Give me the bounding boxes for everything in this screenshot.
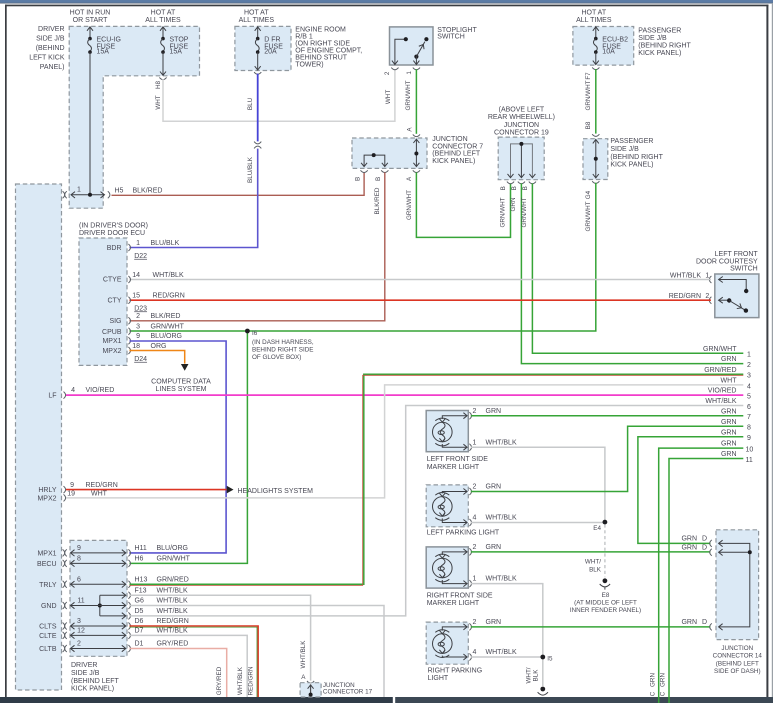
svg-text:GRN: GRN bbox=[486, 484, 502, 491]
svg-text:GRN/WHT: GRN/WHT bbox=[521, 197, 528, 227]
svg-text:H5: H5 bbox=[115, 187, 124, 194]
svg-text:CPUB: CPUB bbox=[102, 329, 122, 336]
svg-text:G6: G6 bbox=[135, 598, 144, 605]
wire GRN : bottom edge connector C to right edge node 10 bbox=[649, 448, 743, 703]
svg-text:3: 3 bbox=[747, 373, 751, 380]
svg-text:GRY/RED: GRY/RED bbox=[216, 666, 223, 695]
junction connector 14 bbox=[681, 530, 762, 675]
wire BLU / BLU-BLK : D FR fuse down to driver door ECU BDR bbox=[130, 72, 262, 247]
left front door courtesy switch bbox=[696, 251, 759, 317]
svg-text:2: 2 bbox=[472, 544, 476, 551]
svg-text:E8: E8 bbox=[602, 592, 610, 599]
node HOT IN RUN OR START bbox=[70, 10, 111, 25]
svg-text:GRN: GRN bbox=[649, 673, 656, 687]
stoplight switch bbox=[390, 27, 478, 65]
svg-text:GRN: GRN bbox=[486, 408, 502, 415]
svg-text:(ON RIGHT SIDE: (ON RIGHT SIDE bbox=[295, 41, 350, 48]
svg-text:HRLY: HRLY bbox=[38, 487, 56, 494]
svg-text:GND: GND bbox=[41, 603, 57, 610]
svg-text:BLU/ORG: BLU/ORG bbox=[151, 333, 183, 340]
pin row G6 WHT/BLK bbox=[63, 598, 188, 609]
svg-text:1: 1 bbox=[705, 272, 709, 279]
svg-text:GRN: GRN bbox=[681, 536, 697, 543]
svg-text:SIDE J/B: SIDE J/B bbox=[36, 36, 65, 43]
svg-text:4: 4 bbox=[472, 515, 476, 522]
wire RED/GRN : D6 to bottom edge bbox=[130, 626, 259, 697]
wire WHT/BLK : driver door ECU CTYE to courtesy switch pin 1 bbox=[130, 272, 711, 279]
svg-text:RED/GRN: RED/GRN bbox=[669, 293, 701, 300]
svg-text:GRN: GRN bbox=[660, 673, 667, 687]
svg-text:BLU/BLK: BLU/BLK bbox=[247, 156, 254, 183]
svg-text:BEHIND RIGHT SIDE: BEHIND RIGHT SIDE bbox=[252, 346, 313, 353]
svg-text:LINES SYSTEM: LINES SYSTEM bbox=[156, 386, 207, 393]
svg-text:VIO/RED: VIO/RED bbox=[708, 388, 737, 395]
svg-text:LEFT KICK: LEFT KICK bbox=[29, 55, 65, 62]
wire GRN/WHT : junction connector 7 pin A to junction connector 19 pin B bbox=[406, 172, 511, 237]
svg-text:15A: 15A bbox=[97, 49, 110, 56]
svg-text:RIGHT PARKING: RIGHT PARKING bbox=[428, 667, 483, 674]
svg-text:H11: H11 bbox=[135, 545, 147, 552]
svg-text:8: 8 bbox=[77, 556, 81, 563]
ground E8 bbox=[570, 558, 641, 614]
wire GRN/WHT F7-B8 : ECU-B2 fuse to passenger side J/B bbox=[585, 67, 599, 136]
svg-text:F13: F13 bbox=[135, 588, 147, 595]
svg-text:WHT/BLK: WHT/BLK bbox=[670, 272, 701, 279]
svg-text:(BEHIND LEFT: (BEHIND LEFT bbox=[716, 660, 759, 667]
svg-text:DOOR COURTESY: DOOR COURTESY bbox=[696, 258, 758, 265]
svg-text:D7: D7 bbox=[135, 628, 144, 635]
svg-text:B: B bbox=[355, 177, 362, 181]
svg-text:BDR: BDR bbox=[107, 245, 122, 252]
svg-text:BEHIND STRUT: BEHIND STRUT bbox=[295, 54, 347, 61]
wire GRN : right front side marker light to junction connector 14 pin D bbox=[471, 551, 711, 553]
svg-text:KICK PANEL): KICK PANEL) bbox=[610, 162, 653, 169]
svg-text:LEFT FRONT SIDE: LEFT FRONT SIDE bbox=[427, 456, 489, 463]
svg-text:(BEHIND RIGHT: (BEHIND RIGHT bbox=[610, 154, 663, 161]
svg-text:2: 2 bbox=[472, 408, 476, 415]
wire GRN : junction connector 14 pin D to right edge node 9 bbox=[638, 437, 743, 544]
svg-text:1: 1 bbox=[136, 240, 140, 247]
svg-text:CONNECTOR 19: CONNECTOR 19 bbox=[494, 130, 549, 137]
svg-text:CTYE: CTYE bbox=[103, 277, 122, 284]
wire GRN : bottom edge connector C to right edge node 11 bbox=[660, 459, 744, 703]
right parking light bbox=[426, 619, 517, 682]
svg-text:GRN/RED: GRN/RED bbox=[704, 367, 736, 374]
svg-text:3: 3 bbox=[77, 618, 81, 625]
svg-text:LF: LF bbox=[48, 393, 56, 400]
tall box pin labels MPX1 BECU TRLY GND CLTS CLTE CLTB bbox=[37, 550, 57, 653]
wire GRN/WHT : driver J/B H6 to I6 splice on CPUB wire bbox=[130, 331, 248, 563]
svg-text:WHT/BLK: WHT/BLK bbox=[157, 588, 188, 595]
svg-text:15: 15 bbox=[132, 293, 140, 300]
svg-text:RED/GRN: RED/GRN bbox=[153, 293, 185, 300]
svg-text:(IN DRIVER'S DOOR): (IN DRIVER'S DOOR) bbox=[79, 223, 148, 230]
wire GRN/WHT 1 : stoplight switch to junction connector 7 pin A bbox=[405, 68, 420, 137]
svg-text:WHT/BLK: WHT/BLK bbox=[486, 649, 517, 656]
svg-text:12: 12 bbox=[77, 628, 85, 635]
svg-text:WHT/BLK: WHT/BLK bbox=[157, 628, 188, 635]
pin row H11 BLU/ORG bbox=[63, 545, 188, 556]
svg-text:9: 9 bbox=[77, 545, 81, 552]
svg-text:2: 2 bbox=[472, 484, 476, 491]
svg-text:MPX1: MPX1 bbox=[37, 550, 56, 557]
svg-text:E4: E4 bbox=[593, 525, 601, 532]
svg-text:6: 6 bbox=[77, 577, 81, 584]
svg-text:2: 2 bbox=[472, 619, 476, 626]
svg-text:B8: B8 bbox=[585, 121, 592, 129]
svg-text:GRN: GRN bbox=[721, 451, 737, 458]
wire RED/GRN : tall box HRLY pin to headlights system bbox=[38, 482, 313, 495]
svg-text:GRY/RED: GRY/RED bbox=[157, 641, 189, 648]
svg-text:18: 18 bbox=[132, 343, 140, 350]
pin 2 BLK/RED label (SIG) bbox=[136, 313, 180, 320]
svg-text:C: C bbox=[649, 691, 656, 696]
fuse STOP 15A bbox=[160, 27, 189, 76]
svg-text:KICK PANEL): KICK PANEL) bbox=[71, 686, 114, 693]
svg-text:B: B bbox=[375, 177, 382, 181]
svg-text:BLK: BLK bbox=[589, 566, 602, 573]
wire GRN : left front side marker light to right edge node 7 bbox=[471, 415, 744, 417]
wire WHT : tall box MPX2 pin to right edge node 4 bbox=[37, 385, 743, 503]
svg-text:WHT/BLK: WHT/BLK bbox=[157, 608, 188, 615]
svg-text:BLU: BLU bbox=[247, 97, 254, 110]
svg-text:9: 9 bbox=[747, 435, 751, 442]
svg-text:RED/GRN: RED/GRN bbox=[157, 618, 189, 625]
pin 9 BLU/ORG label (MPX1) bbox=[136, 333, 182, 340]
svg-text:WHT/: WHT/ bbox=[525, 667, 532, 683]
junction connector 19 bbox=[488, 107, 555, 191]
svg-text:MARKER LIGHT: MARKER LIGHT bbox=[427, 464, 480, 471]
wire GRN : junction connector 19 pin B to right edge node 2 bbox=[510, 183, 743, 363]
svg-text:WHT: WHT bbox=[155, 95, 162, 109]
svg-text:PANEL): PANEL) bbox=[40, 64, 65, 71]
svg-text:5: 5 bbox=[747, 394, 751, 401]
svg-text:GRN: GRN bbox=[681, 619, 697, 626]
svg-text:VIO/RED: VIO/RED bbox=[86, 387, 115, 394]
node HOT AT ALL TIMES (D FR fuse) bbox=[239, 10, 275, 25]
svg-text:9: 9 bbox=[70, 482, 74, 489]
svg-text:6: 6 bbox=[747, 404, 751, 411]
svg-text:BLU/ORG: BLU/ORG bbox=[157, 545, 189, 552]
svg-text:SWITCH: SWITCH bbox=[437, 34, 465, 41]
junction connector 7 bbox=[352, 136, 483, 181]
svg-text:HOT IN RUN: HOT IN RUN bbox=[70, 10, 111, 17]
wire GRY/RED : D1 to bottom edge bbox=[130, 649, 227, 698]
svg-text:2: 2 bbox=[77, 641, 81, 648]
driver door ECU bbox=[79, 223, 148, 366]
svg-text:OR START: OR START bbox=[73, 17, 108, 24]
svg-text:G4: G4 bbox=[585, 190, 592, 199]
svg-text:(BEHIND RIGHT: (BEHIND RIGHT bbox=[638, 43, 691, 50]
svg-text:D23: D23 bbox=[134, 305, 147, 312]
pin row F13 WHT/BLK (ground bus) bbox=[98, 588, 188, 616]
svg-text:JUNCTION: JUNCTION bbox=[721, 645, 753, 652]
svg-text:JUNCTION: JUNCTION bbox=[432, 136, 467, 143]
svg-text:10A: 10A bbox=[602, 49, 615, 56]
svg-text:2: 2 bbox=[384, 71, 391, 75]
pin 18 ORG label (MPX2) bbox=[132, 343, 166, 363]
svg-text:BLK/RED: BLK/RED bbox=[374, 187, 381, 214]
svg-text:D6: D6 bbox=[135, 618, 144, 625]
svg-text:CLTE: CLTE bbox=[39, 633, 57, 640]
pin row D1 GRY/RED bbox=[63, 641, 189, 652]
junction connector 17 bbox=[300, 640, 373, 697]
svg-text:1: 1 bbox=[747, 352, 751, 359]
svg-text:B: B bbox=[500, 186, 507, 190]
fuse ECU-IG 15A bbox=[87, 27, 121, 195]
svg-text:BECU: BECU bbox=[37, 561, 56, 568]
svg-text:11: 11 bbox=[746, 457, 753, 464]
svg-text:SWITCH: SWITCH bbox=[730, 266, 758, 273]
wire ORG : ECU MPX2 to computer data lines system bbox=[130, 351, 212, 393]
node E4 splice bbox=[593, 520, 607, 578]
svg-text:WHT: WHT bbox=[385, 90, 392, 104]
svg-text:WHT/BLK: WHT/BLK bbox=[157, 598, 188, 605]
svg-text:SIDE J/B: SIDE J/B bbox=[71, 670, 100, 677]
svg-text:I6: I6 bbox=[252, 330, 258, 337]
left front side marker light bbox=[426, 408, 517, 471]
pin row H13 GRN/RED bbox=[63, 577, 189, 588]
svg-text:I5: I5 bbox=[547, 655, 553, 662]
svg-text:(IN DASH HARNESS,: (IN DASH HARNESS, bbox=[252, 339, 314, 346]
svg-text:WHT/BLK: WHT/BLK bbox=[237, 666, 244, 695]
svg-text:GRN/WHT: GRN/WHT bbox=[585, 80, 592, 110]
svg-text:ALL TIMES: ALL TIMES bbox=[239, 17, 275, 24]
wire H5 BLK/RED : IG pin to junction connector 7 pin B bbox=[112, 173, 365, 196]
svg-text:GRN/WHT: GRN/WHT bbox=[703, 346, 737, 353]
svg-text:D: D bbox=[702, 536, 707, 543]
svg-text:(AT MIDDLE OF LEFT: (AT MIDDLE OF LEFT bbox=[574, 599, 637, 606]
svg-text:SIDE J/B: SIDE J/B bbox=[638, 35, 667, 42]
svg-text:BLK: BLK bbox=[533, 669, 540, 682]
wire BLU/ORG : ECU MPX1 to driver J/B H11 bbox=[129, 341, 226, 553]
svg-text:(BEHIND LEFT: (BEHIND LEFT bbox=[432, 151, 481, 158]
svg-text:LEFT FRONT: LEFT FRONT bbox=[715, 251, 759, 258]
svg-text:MPX1: MPX1 bbox=[102, 338, 121, 345]
svg-text:8: 8 bbox=[747, 425, 751, 432]
svg-text:DRIVER: DRIVER bbox=[71, 662, 97, 669]
svg-text:PASSENGER: PASSENGER bbox=[638, 27, 681, 34]
svg-text:GRN: GRN bbox=[486, 619, 502, 626]
svg-text:DRIVER DOOR ECU: DRIVER DOOR ECU bbox=[79, 230, 145, 237]
wire GRN : right parking light to junction connector 14 pin D bbox=[471, 626, 711, 628]
svg-text:HOT AT: HOT AT bbox=[581, 10, 606, 17]
svg-text:4: 4 bbox=[747, 383, 751, 390]
pin 1 BLU/BLK label (BDR) bbox=[134, 240, 179, 260]
node HOT AT ALL TIMES (ECU-B2 fuse) bbox=[576, 10, 612, 25]
svg-text:BLK/RED: BLK/RED bbox=[151, 313, 181, 320]
svg-text:WHT: WHT bbox=[721, 378, 738, 385]
svg-text:1: 1 bbox=[472, 576, 476, 583]
svg-text:LIGHT: LIGHT bbox=[428, 675, 449, 682]
fuse D FR 20A bbox=[255, 27, 284, 70]
svg-text:(ABOVE LEFT: (ABOVE LEFT bbox=[499, 107, 545, 114]
svg-text:ORG: ORG bbox=[151, 343, 167, 350]
driver side J/B (lower block) bbox=[70, 540, 127, 692]
svg-text:GRN: GRN bbox=[486, 544, 502, 551]
svg-text:(BEHIND LEFT: (BEHIND LEFT bbox=[71, 678, 120, 685]
svg-text:D22: D22 bbox=[134, 253, 147, 260]
svg-text:1: 1 bbox=[406, 71, 413, 75]
svg-text:WHT/BLK: WHT/BLK bbox=[300, 640, 307, 669]
svg-text:D: D bbox=[702, 619, 707, 626]
wire WHT H8 : STOP fuse to stoplight switch bbox=[155, 68, 398, 122]
wire WHT/BLK : right parking light to I5 splice bbox=[471, 656, 543, 658]
svg-text:MPX2: MPX2 bbox=[102, 348, 121, 355]
svg-text:4: 4 bbox=[472, 649, 476, 656]
pin 14 WHT/BLK label (CTYE) bbox=[132, 272, 184, 279]
svg-text:2: 2 bbox=[747, 362, 751, 369]
svg-text:TRLY: TRLY bbox=[39, 582, 57, 589]
passenger side J/B (behind right kick panel) bbox=[583, 138, 664, 180]
svg-text:(BEHIND: (BEHIND bbox=[36, 45, 65, 52]
pin row H6 GRN/WHT bbox=[63, 556, 191, 567]
svg-text:GRN/RED: GRN/RED bbox=[157, 577, 189, 584]
svg-text:20A: 20A bbox=[264, 49, 277, 56]
svg-text:DRIVER: DRIVER bbox=[38, 26, 64, 33]
svg-text:WHT/BLK: WHT/BLK bbox=[153, 272, 184, 279]
svg-text:RED/GRN: RED/GRN bbox=[248, 666, 255, 695]
svg-text:3: 3 bbox=[136, 324, 140, 331]
svg-text:SIDE J/B: SIDE J/B bbox=[610, 146, 639, 153]
svg-text:GRN/WHT: GRN/WHT bbox=[151, 324, 185, 331]
svg-text:PASSENGER: PASSENGER bbox=[610, 138, 653, 145]
svg-text:JUNCTION: JUNCTION bbox=[504, 122, 539, 129]
driver side J/B (top left, L-shaped block with ECU-IG and STOP fuses) bbox=[29, 26, 199, 208]
ground I5 (bottom) bbox=[525, 667, 548, 695]
svg-text:CONNECTOR 17: CONNECTOR 17 bbox=[323, 689, 373, 696]
svg-text:CTY: CTY bbox=[108, 297, 122, 304]
wire WHT/BLK : right front side marker light to I5 and ground bbox=[471, 584, 543, 686]
svg-text:C: C bbox=[660, 691, 667, 696]
svg-text:H8: H8 bbox=[155, 80, 162, 89]
pin 15 RED/GRN label (CTY) bbox=[132, 293, 185, 313]
svg-text:HOT AT: HOT AT bbox=[244, 10, 269, 17]
wire WHT/BLK : D7 to bottom edge bbox=[130, 635, 248, 697]
wire GRN/WHT G4 : passenger side J/B to driver door ECU CPUB (with I6 splice) bbox=[130, 181, 600, 331]
svg-text:OF GLOVE BOX): OF GLOVE BOX) bbox=[252, 354, 301, 361]
svg-text:D5: D5 bbox=[135, 608, 144, 615]
svg-text:WHT/BLK: WHT/BLK bbox=[486, 515, 517, 522]
wire GRN/WHT : junction connector 19 pin B to right edge node 1 bbox=[521, 183, 743, 353]
svg-text:B: B bbox=[522, 186, 529, 190]
svg-text:CLTB: CLTB bbox=[39, 646, 57, 653]
svg-text:H6: H6 bbox=[135, 556, 144, 563]
svg-text:MPX2: MPX2 bbox=[37, 495, 56, 502]
svg-text:BLK/RED: BLK/RED bbox=[133, 187, 163, 194]
svg-text:WHT/BLK: WHT/BLK bbox=[486, 576, 517, 583]
svg-text:GRN/WHT: GRN/WHT bbox=[405, 80, 412, 110]
pin row D7 WHT/BLK bbox=[63, 628, 188, 639]
svg-text:ALL TIMES: ALL TIMES bbox=[145, 17, 181, 24]
svg-text:7: 7 bbox=[747, 414, 751, 421]
wire WHT/BLK : left parking light to E4 splice bbox=[471, 522, 605, 524]
svg-text:F7: F7 bbox=[585, 72, 592, 80]
svg-text:2: 2 bbox=[705, 293, 709, 300]
svg-text:KICK PANEL): KICK PANEL) bbox=[432, 158, 475, 165]
svg-text:ENGINE ROOM: ENGINE ROOM bbox=[295, 27, 346, 34]
svg-text:CLTS: CLTS bbox=[39, 624, 57, 631]
svg-text:GRN: GRN bbox=[721, 429, 737, 436]
wire WHT/BLK : D5 to right edge node 6 bbox=[130, 406, 744, 616]
passenger side J/B with fuse ECU-B2 10A bbox=[573, 27, 692, 66]
svg-text:WHT/: WHT/ bbox=[585, 558, 601, 565]
svg-text:HOT AT: HOT AT bbox=[151, 10, 176, 17]
wire WHT/BLK : F13 to junction connector 17 bbox=[130, 595, 311, 680]
svg-text:19: 19 bbox=[67, 490, 75, 497]
svg-text:GRN/WHT: GRN/WHT bbox=[157, 556, 191, 563]
pin 3 GRN/WHT label (CPUB) bbox=[136, 324, 185, 331]
svg-text:REAR WHEELWELL): REAR WHEELWELL) bbox=[488, 114, 555, 121]
svg-text:KICK PANEL): KICK PANEL) bbox=[638, 50, 681, 57]
engine room R/B 1 block bbox=[235, 26, 362, 70]
svg-text:GRN: GRN bbox=[510, 197, 517, 211]
wire GRN : left parking light to right edge node 8 bbox=[471, 426, 744, 491]
svg-text:11: 11 bbox=[77, 598, 84, 605]
svg-text:CONNECTOR 14: CONNECTOR 14 bbox=[713, 653, 763, 660]
pin row D5 WHT/BLK bbox=[100, 608, 188, 619]
svg-text:B: B bbox=[511, 186, 518, 190]
wire WHT/BLK : G6 to bottom edge bbox=[130, 606, 385, 698]
svg-text:GRN/WHT: GRN/WHT bbox=[406, 190, 413, 220]
wire VIO/RED : tall box LF pin to right edge node 5 bbox=[48, 387, 743, 399]
tall left box (body ECU region) bbox=[16, 184, 62, 690]
wire RED/GRN : driver door ECU CTY to courtesy switch pin 2 bbox=[130, 293, 711, 300]
svg-text:9: 9 bbox=[136, 333, 140, 340]
svg-text:D24: D24 bbox=[134, 356, 147, 363]
svg-text:H13: H13 bbox=[135, 577, 148, 584]
svg-text:GRN: GRN bbox=[721, 356, 737, 363]
svg-text:WHT/BLK: WHT/BLK bbox=[705, 398, 736, 405]
svg-text:14: 14 bbox=[132, 272, 140, 279]
wire GRN/RED : H13 to right edge node 3 bbox=[130, 374, 744, 585]
svg-text:RIGHT FRONT SIDE: RIGHT FRONT SIDE bbox=[427, 592, 493, 599]
svg-text:15A: 15A bbox=[170, 49, 183, 56]
svg-text:WHT: WHT bbox=[91, 490, 108, 497]
svg-text:2: 2 bbox=[136, 313, 140, 320]
svg-text:ALL TIMES: ALL TIMES bbox=[576, 17, 612, 24]
svg-text:4: 4 bbox=[71, 387, 75, 394]
wire BLK/RED : junction connector 7 pin B to driver door ECU SIG bbox=[130, 172, 385, 320]
node I6 splice bbox=[245, 329, 314, 361]
node HOT AT ALL TIMES (STOP fuse) bbox=[145, 10, 181, 25]
svg-text:1: 1 bbox=[77, 187, 81, 194]
left parking light bbox=[426, 484, 517, 537]
wire WHT/BLK : left front side marker light to E4 bbox=[471, 447, 605, 520]
svg-text:1: 1 bbox=[472, 439, 476, 446]
svg-text:GRN: GRN bbox=[681, 544, 697, 551]
svg-text:COMPUTER DATA: COMPUTER DATA bbox=[151, 378, 211, 385]
right edge node labels 1-11 bbox=[703, 346, 753, 464]
svg-text:SIDE OF DASH): SIDE OF DASH) bbox=[714, 668, 761, 675]
pin 1 row of driver J/B (IG output) bbox=[63, 187, 110, 199]
svg-text:TOWER): TOWER) bbox=[295, 62, 323, 69]
svg-text:LEFT PARKING LIGHT: LEFT PARKING LIGHT bbox=[427, 530, 500, 537]
svg-text:CONNECTOR 7: CONNECTOR 7 bbox=[432, 143, 483, 150]
svg-text:BLU/BLK: BLU/BLK bbox=[151, 240, 180, 247]
svg-text:INNER FENDER PANEL): INNER FENDER PANEL) bbox=[570, 607, 641, 614]
svg-text:GRN: GRN bbox=[721, 419, 737, 426]
svg-text:D: D bbox=[702, 544, 707, 551]
svg-text:HEADLIGHTS SYSTEM: HEADLIGHTS SYSTEM bbox=[238, 488, 314, 495]
svg-text:GRN/WHT: GRN/WHT bbox=[585, 201, 592, 231]
right front side marker light bbox=[426, 544, 517, 607]
svg-text:WHT/BLK: WHT/BLK bbox=[486, 439, 517, 446]
svg-text:RED/GRN: RED/GRN bbox=[86, 482, 118, 489]
svg-text:D1: D1 bbox=[135, 641, 144, 648]
pin row D6 RED/GRN bbox=[63, 618, 189, 629]
svg-text:GRN: GRN bbox=[721, 441, 737, 448]
